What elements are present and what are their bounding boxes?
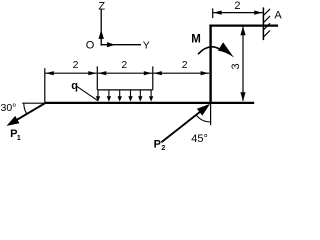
dimension 2 (right segment) <box>153 59 209 75</box>
force P1 arrowhead <box>7 116 20 126</box>
label P1 <box>10 128 21 142</box>
top horizontal beam to wall A <box>209 24 278 26</box>
svg-text:2: 2 <box>234 0 240 12</box>
axis Y <box>101 39 150 51</box>
svg-text:P: P <box>154 138 161 150</box>
fixed support wall at A <box>263 7 270 40</box>
45 degree arc <box>196 115 211 122</box>
svg-text:2: 2 <box>161 145 165 152</box>
dimension tick at load right <box>152 66 154 90</box>
svg-text:30°: 30° <box>1 102 17 114</box>
30 degree arc <box>24 103 27 114</box>
svg-text:2: 2 <box>121 59 127 71</box>
dimension 2 (middle segment) <box>98 59 153 75</box>
moment M arc arrow <box>198 42 234 57</box>
svg-text:1: 1 <box>17 135 21 142</box>
svg-text:2: 2 <box>73 59 79 71</box>
svg-text:3: 3 <box>230 63 242 69</box>
force P2 line <box>161 110 202 142</box>
svg-text:O: O <box>86 39 95 51</box>
30 degree reference line <box>22 102 45 104</box>
dimension tick at load left <box>96 66 98 90</box>
45 degree extension line below joint <box>210 104 212 126</box>
svg-text:M: M <box>191 34 201 46</box>
distributed load arrows <box>96 90 154 102</box>
dimension 3 (vertical) <box>230 26 245 101</box>
q pointer line <box>77 86 98 100</box>
force P2 arrowhead <box>197 104 210 116</box>
dimension 2 (top) <box>213 0 263 18</box>
svg-text:Y: Y <box>143 39 150 51</box>
svg-text:2: 2 <box>182 59 188 71</box>
svg-text:45°: 45° <box>191 133 208 145</box>
dimension row extension line left <box>44 68 46 103</box>
main horizontal beam <box>45 102 254 104</box>
svg-text:q: q <box>71 80 78 92</box>
distributed load q line <box>97 89 153 91</box>
vertical beam <box>209 25 211 104</box>
svg-text:Z: Z <box>98 0 105 12</box>
dimension 2 (left segment) <box>45 59 97 75</box>
svg-text:A: A <box>274 9 282 21</box>
axis Z <box>98 0 105 45</box>
label P2 <box>154 138 166 152</box>
force P1 line <box>14 103 45 121</box>
